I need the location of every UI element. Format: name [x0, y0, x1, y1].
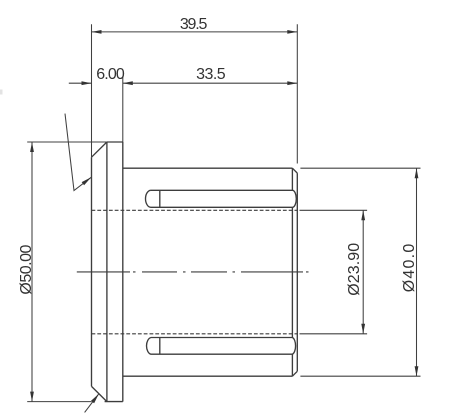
- arrowhead 33.5 right: [287, 81, 297, 85]
- flange chamfer edge line: [106, 142, 108, 402]
- svg-text:6.00: 6.00: [96, 66, 125, 83]
- svg-text:33.5: 33.5: [196, 66, 226, 83]
- dimension 6.00 outside tail: [69, 82, 92, 84]
- arrowhead 6.00 left: [82, 81, 92, 85]
- cropped note fragment at left edge: [0, 90, 3, 95]
- arrowhead dia23.90 top: [361, 210, 365, 220]
- body end chamfer edge line segments: [291, 168, 293, 376]
- arrowhead dia40 top: [415, 168, 419, 178]
- body bottom edge: [123, 375, 293, 377]
- arrowhead leader top: [82, 177, 92, 185]
- flange front face line: [91, 157, 93, 386]
- extension line dia50 bottom: [27, 401, 91, 403]
- body end face line: [296, 173, 298, 371]
- dimension line 33.5: [123, 82, 297, 84]
- body end chamfer bottom: [292, 371, 297, 376]
- bore hidden line lower: [92, 333, 298, 335]
- dimension line dia40: [416, 168, 418, 376]
- arrowhead 39.5 left: [92, 30, 102, 34]
- centerline axis: [77, 271, 309, 273]
- bore hidden line upper: [92, 209, 298, 211]
- extension line right end: [296, 24, 298, 163]
- extension line dia40 bottom: [300, 375, 420, 377]
- arrowhead 33.5 left: [123, 81, 133, 85]
- extension line dia23.90 top: [300, 209, 368, 211]
- flange top edge: [107, 141, 123, 143]
- svg-text:Ø23.90: Ø23.90: [346, 243, 363, 296]
- arrowhead leader bottom: [91, 394, 99, 404]
- body end chamfer top: [292, 168, 297, 173]
- arrowhead dia40 bottom: [415, 366, 419, 376]
- extension line flange back: [122, 77, 124, 142]
- arrowhead dia50 bottom: [30, 392, 34, 402]
- flange back face line: [122, 142, 124, 402]
- flange bottom edge: [105, 401, 123, 403]
- body top edge: [123, 167, 293, 169]
- dimension line 39.5: [92, 31, 298, 33]
- flange bottom-left chamfer: [92, 386, 107, 401]
- extension line left face: [91, 24, 93, 157]
- arrowhead 39.5 right: [287, 30, 297, 34]
- arrowhead dia23.90 bottom: [361, 324, 365, 334]
- chamfer leader bottom: [85, 394, 99, 413]
- svg-text:39.5: 39.5: [180, 16, 208, 33]
- svg-text:Ø40.0: Ø40.0: [401, 244, 418, 293]
- dimension line dia50: [31, 142, 33, 402]
- extension line dia50 top: [27, 141, 107, 143]
- bottom slot runout line: [159, 338, 161, 355]
- top slot outline: [146, 190, 297, 207]
- arrowhead dia50 top: [30, 142, 34, 152]
- dimension line dia23.90: [362, 210, 364, 333]
- flange top-left chamfer: [92, 142, 107, 157]
- bottom slot outline: [147, 338, 296, 355]
- extension line dia40 top: [300, 167, 420, 169]
- extension line dia23.90 bottom: [300, 333, 368, 335]
- chamfer leader top: [65, 114, 91, 191]
- top slot runout line: [159, 190, 161, 207]
- svg-text:Ø50.00: Ø50.00: [18, 245, 35, 295]
